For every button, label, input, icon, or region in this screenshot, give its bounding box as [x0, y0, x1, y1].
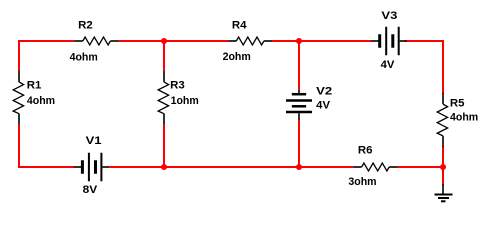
svg-text:V3: V3: [381, 10, 397, 22]
wire top-right corner: V3 right, down right side to R5 top: [405, 41, 443, 94]
svg-text:V1: V1: [86, 135, 102, 147]
battery V3: [371, 27, 406, 56]
svg-text:V2: V2: [316, 85, 332, 97]
svg-text:R1: R1: [27, 80, 42, 92]
junction V2 bottom: [296, 164, 302, 170]
svg-text:R2: R2: [78, 20, 93, 32]
wire bottom: V1 right to R6 left through nodes: [109, 166, 353, 168]
svg-text:R3: R3: [170, 80, 185, 92]
node A junction (R3 top): [161, 38, 167, 44]
resistor R5: [437, 93, 447, 147]
svg-text:R5: R5: [450, 98, 465, 110]
svg-text:4ohm: 4ohm: [70, 52, 98, 64]
ground: [435, 184, 453, 201]
svg-text:R6: R6: [358, 145, 373, 157]
svg-text:3ohm: 3ohm: [348, 176, 376, 188]
wire right side: R5 bottom down through node D to ground stem: [442, 146, 444, 185]
resistor R6: [353, 163, 397, 171]
wire top: R4 right to V3 left through node B: [272, 40, 371, 42]
svg-text:2ohm: 2ohm: [223, 51, 251, 63]
battery V1: [74, 153, 109, 182]
junction R3 bottom: [161, 164, 167, 170]
svg-text:4ohm: 4ohm: [450, 111, 478, 123]
wire bottom-right: R6 right to node D: [397, 166, 443, 168]
wire R3 bottom to bottom wire: [163, 125, 165, 167]
svg-text:4V: 4V: [381, 59, 395, 71]
svg-text:1ohm: 1ohm: [171, 95, 199, 107]
resistor R4: [228, 37, 272, 45]
resistor R3: [158, 71, 168, 125]
wire V2 bottom to bottom wire: [298, 120, 300, 167]
node B junction (V2 top): [296, 38, 302, 44]
svg-text:R4: R4: [232, 20, 248, 32]
node D junction (ground): [440, 164, 446, 170]
wire top-left corner: R2 left to node, down left side to R1 top: [19, 41, 75, 71]
battery V2: [286, 90, 312, 121]
resistor R2: [75, 37, 119, 45]
wire left side: R1 bottom to bottom-left corner to V1 left: [19, 125, 74, 167]
wire node A down to R3 top: [163, 41, 165, 71]
svg-text:4ohm: 4ohm: [27, 95, 55, 107]
svg-text:4V: 4V: [316, 100, 330, 112]
resistor R1: [13, 71, 23, 125]
wire node B down to V2 top: [298, 41, 300, 90]
svg-text:8V: 8V: [83, 184, 98, 196]
wire top: R2 right to R4 left through node A: [119, 40, 229, 42]
